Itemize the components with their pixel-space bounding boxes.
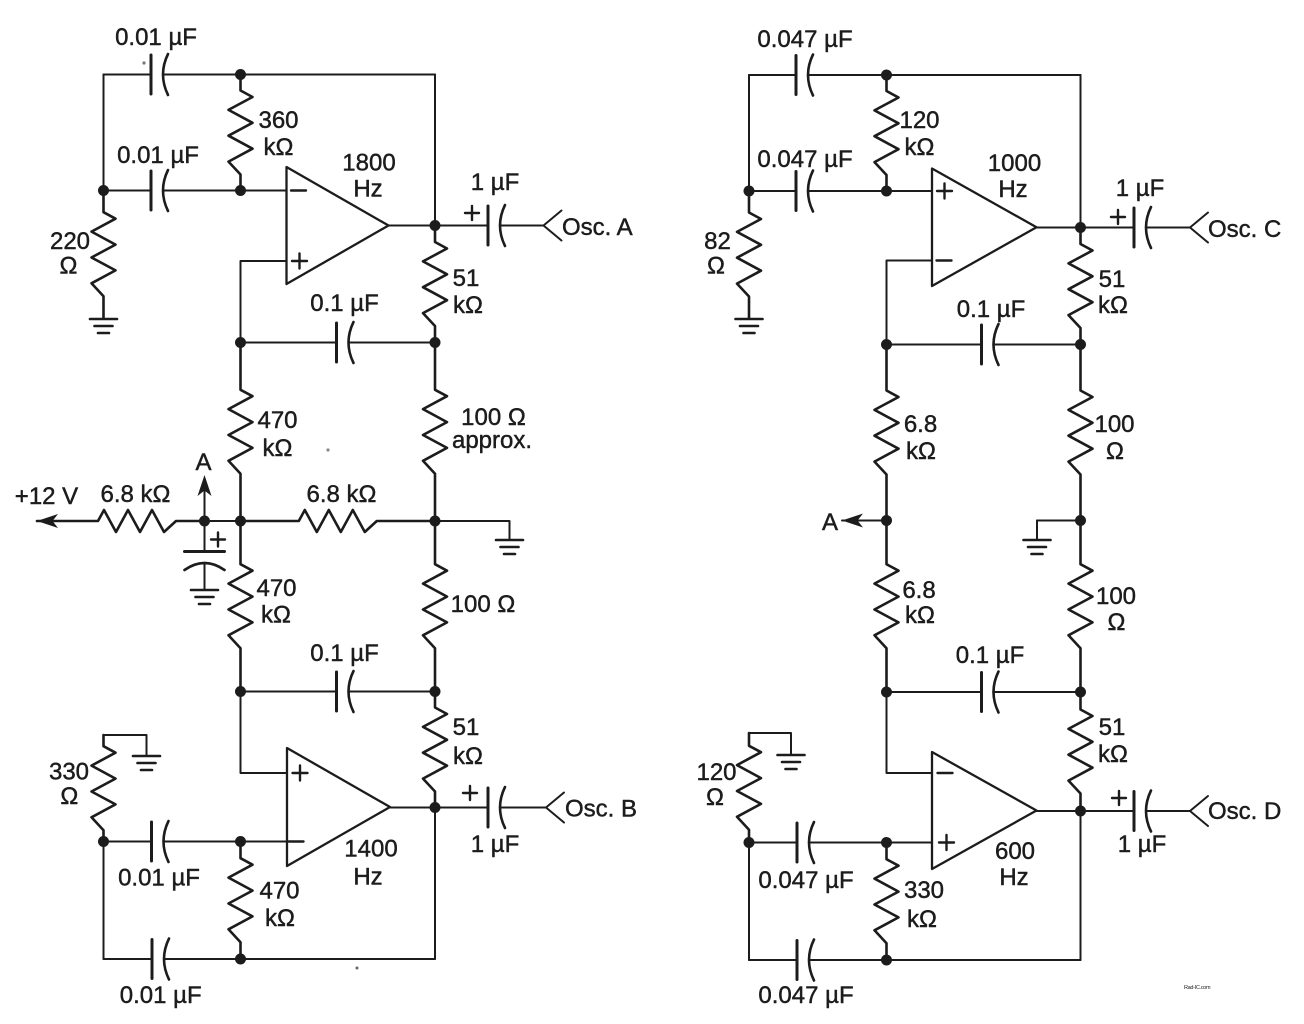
capacitor C 1 uF (Osc. D coupling) (1112, 791, 1166, 859)
svg-text:Ω: Ω (1108, 609, 1126, 636)
resistor R 330 Ohm (49, 735, 116, 842)
wire feedback vertical (top row to output) (434, 75, 436, 226)
capacitor C 0.1 uF (row 2 right) (956, 642, 1025, 713)
wire inverting input row, left segment (104, 190, 152, 192)
capacitor C 0.047 uF (top feedback) (757, 26, 852, 96)
wire feedback vertical right circuit (1080, 75, 1082, 228)
wire 0.1 uF row 2 left segment (241, 691, 337, 693)
wire to Osc. C connector (1146, 227, 1190, 229)
svg-text:A: A (822, 509, 838, 536)
svg-text:6.8 kΩ: 6.8 kΩ (101, 481, 171, 508)
wire top feedback row, left segment (104, 74, 152, 76)
wire to Osc. D connector (1146, 810, 1190, 812)
wire U4 non-inverting row left segment (749, 842, 797, 844)
svg-text:330: 330 (904, 877, 944, 904)
svg-text:0.01 µF: 0.01 µF (120, 982, 202, 1009)
svg-text:470: 470 (259, 878, 299, 905)
wire top feedback row C, right segment (808, 74, 1081, 76)
svg-text:0.1 µF: 0.1 µF (310, 640, 379, 667)
capacitor C 0.047 uF (U4 input) (758, 822, 853, 894)
op-amp U1 1800 Hz (287, 150, 396, 285)
svg-text:kΩ: kΩ (453, 743, 483, 770)
wire U4 non-inverting row right segment (809, 842, 932, 844)
svg-text:470: 470 (257, 407, 297, 434)
node junction row2 left (235, 686, 246, 697)
wire U2 inverting row left segment (104, 841, 152, 843)
op-amp U3 1000 Hz (932, 150, 1041, 286)
capacitor C 0.1 uF (row 1) (310, 290, 379, 363)
resistor R 82 Ohm (704, 191, 761, 318)
svg-text:0.01 µF: 0.01 µF (118, 865, 200, 892)
resistor R 6.8 kOhm (upper right) (875, 345, 938, 521)
svg-text:1400: 1400 (344, 836, 397, 863)
svg-text:600: 600 (995, 838, 1035, 865)
wire right vertical output to bottom (434, 808, 436, 960)
svg-text:51: 51 (1099, 714, 1126, 741)
wire 0.1 uF row 2 right-circuit left segment (887, 691, 982, 693)
ground (below 220 Ohm) (90, 319, 117, 333)
svg-text:Ω: Ω (60, 253, 78, 280)
svg-text:100: 100 (1094, 411, 1134, 438)
ground (120 Ohm) (778, 755, 805, 769)
wire top feedback row, right segment (163, 74, 435, 76)
resistor R 330 kOhm (875, 843, 945, 961)
wire 0.1 uF row 2 right-circuit right segment (994, 691, 1081, 693)
svg-text:0.047 µF: 0.047 µF (758, 982, 853, 1009)
op-amp U4 600 Hz (932, 752, 1037, 891)
wire top feedback row C, left segment (749, 74, 796, 76)
ground (below bypass cap) (191, 590, 218, 604)
node junction row1 right-circuit left (881, 339, 892, 350)
svg-text:Ω: Ω (706, 784, 724, 811)
connector Osc. C (1190, 213, 1281, 244)
svg-text:6.8: 6.8 (904, 411, 937, 438)
node junction U4 input row left (744, 837, 755, 848)
node junction input row C left (744, 186, 755, 197)
node junction mid row right-circuit right (1075, 515, 1086, 526)
node junction top (360k top) (235, 69, 246, 80)
node junction row2 right (430, 686, 441, 697)
capacitor C 1 uF (Osc. A coupling) (465, 169, 519, 246)
svg-text:0.1 µF: 0.1 µF (956, 642, 1025, 669)
capacitor C 0.1 uF (row 2) (310, 640, 379, 712)
resistor R 51 kOhm (upper left) (423, 226, 483, 343)
scan speck (142, 61, 145, 64)
capacitor C 0.01 uF (top feedback) (115, 24, 197, 95)
wire right-circuit right vertical output to bottom (1080, 811, 1082, 960)
svg-text:+12 V: +12 V (15, 483, 78, 510)
node junction input row left (98, 185, 109, 196)
svg-text:Ω: Ω (60, 783, 78, 810)
capacitor C 0.01 uF (bottom) (120, 939, 202, 1010)
svg-text:kΩ: kΩ (453, 292, 483, 319)
resistor R 120 kOhm (875, 75, 940, 191)
wire inverting input row, right segment to op-amp (163, 190, 287, 192)
svg-text:kΩ: kΩ (905, 602, 935, 629)
wire 0.1 uF row 1 left segment (241, 342, 337, 344)
node junction U1 output (430, 220, 441, 231)
ground (below 82 Ohm) (736, 319, 763, 333)
wire bottom row right segment (164, 958, 435, 960)
svg-text:1 µF: 1 µF (471, 169, 520, 196)
svg-text:330: 330 (49, 759, 89, 786)
op-amp U2 1400 Hz (287, 748, 398, 891)
svg-text:1 µF: 1 µF (1118, 831, 1167, 858)
node junction row2 right-circuit right (1075, 687, 1086, 698)
svg-text:82: 82 (704, 228, 731, 255)
svg-text:Osc. A: Osc. A (562, 214, 633, 241)
power +12 V feed arrow (15, 483, 98, 528)
capacitor C 0.01 uF (input) (117, 142, 199, 211)
capacitor C 0.047 uF (bottom right) (758, 940, 853, 1010)
wire U4 output row (1037, 810, 1135, 812)
scan speck (356, 967, 359, 970)
wire non-inverting input of U2 (241, 692, 288, 774)
wire left vertical right circuit (top) (748, 75, 750, 191)
node junction U2 input row left (98, 836, 109, 847)
resistor R 100 Ohm (lower) (423, 521, 515, 692)
svg-text:0.047 µF: 0.047 µF (757, 146, 852, 173)
connector Osc. A (544, 211, 633, 242)
resistor R 6.8 kOhm (left) (37, 481, 205, 532)
wire 0.1 uF row 1 right-circuit left segment (887, 344, 982, 346)
svg-text:0.01 µF: 0.01 µF (115, 24, 197, 51)
capacitor C electrolytic bypass (node A) (185, 521, 226, 589)
wire 0.1 uF row 1 right segment (349, 342, 436, 344)
ground (330 Ohm) (133, 756, 160, 770)
node junction input row (360k bottom) (235, 185, 246, 196)
svg-text:Osc. C: Osc. C (1208, 216, 1281, 243)
node junction U4 input row (330k top) (881, 837, 892, 848)
svg-text:6.8: 6.8 (902, 577, 935, 604)
svg-text:100: 100 (1096, 583, 1136, 610)
capacitor C 1 uF (Osc. C coupling) (1111, 175, 1164, 248)
svg-text:Osc. D: Osc. D (1208, 798, 1281, 825)
node junction U2 output (430, 802, 441, 813)
node junction bottom row right circuit (881, 955, 892, 966)
svg-text:Hz: Hz (998, 176, 1027, 203)
node junction row1 right-circuit right (1075, 339, 1086, 350)
resistor R 51 kOhm (lower left) (423, 692, 483, 808)
wire left vertical to bottom row (103, 842, 105, 960)
svg-text:120: 120 (899, 107, 939, 134)
wire 330 Ohm top to ground (104, 735, 147, 755)
svg-text:120: 120 (696, 759, 736, 786)
ground (mid row right circuit) (1024, 540, 1051, 554)
svg-text:A: A (195, 449, 211, 476)
svg-text:kΩ: kΩ (1098, 741, 1128, 768)
node junction mid row (470k column) (235, 516, 246, 527)
wire inverting input of U3 (887, 261, 933, 345)
svg-text:Hz: Hz (999, 864, 1028, 891)
svg-text:1 µF: 1 µF (1116, 175, 1165, 202)
resistor R 360 kOhm (229, 75, 299, 191)
svg-text:Hz: Hz (353, 864, 382, 891)
svg-text:kΩ: kΩ (264, 134, 294, 161)
svg-text:0.01 µF: 0.01 µF (117, 142, 199, 169)
svg-text:6.8 kΩ: 6.8 kΩ (307, 481, 377, 508)
wire bottom row right-circuit right segment (809, 959, 1081, 961)
wire bottom row right-circuit left segment (749, 959, 797, 961)
node junction U3 output (1075, 222, 1086, 233)
wire to Osc. A connector (500, 225, 544, 227)
scan speck (326, 448, 329, 451)
wire non-inverting input of U1 (241, 261, 287, 343)
wire right-circuit left vertical to bottom row (748, 843, 750, 961)
svg-text:220: 220 (50, 228, 90, 255)
svg-text:0.047 µF: 0.047 µF (758, 867, 853, 894)
wire left vertical (top cap to input row) (103, 75, 105, 191)
svg-text:0.1 µF: 0.1 µF (310, 290, 379, 317)
svg-text:Hz: Hz (353, 176, 382, 203)
wire input row C, left segment (749, 190, 796, 192)
svg-text:Ω: Ω (1106, 438, 1124, 465)
capacitor C 0.047 uF (input C) (757, 146, 852, 212)
wire mid row short segment (205, 520, 241, 522)
node junction bottom row (235, 954, 246, 965)
wire mid row to ground (435, 521, 510, 539)
svg-text:1000: 1000 (988, 150, 1041, 177)
node junction row1 left (235, 337, 246, 348)
connector Osc. D (1190, 796, 1281, 826)
resistor R 220 Ohm (50, 191, 116, 319)
resistor R 51 kOhm (upper right) (1069, 228, 1128, 345)
wire bottom row left segment (104, 958, 153, 960)
capacitor C 1 uF (Osc. B coupling) (463, 786, 519, 858)
svg-text:Osc. B: Osc. B (565, 796, 637, 823)
capacitor C 0.1 uF (row 1 right) (957, 296, 1026, 365)
node junction top C (120k top) (881, 70, 892, 81)
svg-text:kΩ: kΩ (905, 134, 935, 161)
svg-text:kΩ: kΩ (265, 905, 295, 932)
resistor R 6.8 kOhm (middle) (241, 481, 436, 532)
resistor R 100 Ohm (upper right) (1069, 345, 1135, 521)
svg-text:kΩ: kΩ (907, 906, 937, 933)
svg-text:51: 51 (453, 714, 480, 741)
svg-text:Rad-IC.com: Rad-IC.com (1184, 985, 1211, 991)
wire inverting input of U4 (887, 692, 933, 773)
svg-text:51: 51 (453, 265, 480, 292)
svg-text:kΩ: kΩ (263, 435, 293, 462)
svg-text:1800: 1800 (342, 150, 395, 177)
wire to Osc. B connector (500, 807, 546, 809)
resistor R 470 kOhm (lower) (229, 521, 297, 692)
resistor R 100 Ohm (lower right) (1069, 521, 1137, 693)
resistor R 470 kOhm (U2 feedback) (229, 842, 300, 960)
svg-text:360: 360 (258, 107, 298, 134)
wire mid row right-circuit to ground (1037, 520, 1081, 522)
node junction row1 right (430, 337, 441, 348)
svg-text:0.1 µF: 0.1 µF (957, 296, 1026, 323)
svg-text:1 µF: 1 µF (471, 831, 520, 858)
wire input row C, right segment to op-amp (808, 190, 932, 192)
svg-text:0.047 µF: 0.047 µF (757, 26, 852, 53)
svg-text:kΩ: kΩ (1098, 292, 1128, 319)
wire U2 inverting row right segment (164, 841, 288, 843)
ground (mid row right) (496, 540, 523, 554)
svg-text:100 Ω: 100 Ω (451, 591, 516, 618)
resistor R 470 kOhm (upper) (229, 343, 298, 522)
wire 0.1 uF row 1 right-circuit right segment (994, 344, 1081, 346)
resistor R 100 Ohm approx (423, 343, 532, 522)
wire U1 output row (389, 225, 489, 227)
connector Osc. B (546, 793, 637, 823)
svg-text:kΩ: kΩ (906, 438, 936, 465)
resistor R 6.8 kOhm (lower right) (875, 521, 936, 693)
node junction row2 right-circuit left (881, 687, 892, 698)
node A arrow (right circuit) (822, 509, 887, 536)
svg-text:470: 470 (256, 575, 296, 602)
capacitor C 0.01 uF (U2 input) (118, 821, 200, 892)
resistor R 51 kOhm (lower right) (1069, 692, 1128, 811)
wire U2 output row (390, 807, 488, 809)
node junction U4 output (1075, 806, 1086, 817)
resistor R 120 Ohm (696, 733, 761, 843)
svg-text:Ω: Ω (707, 253, 725, 280)
node A arrow (left circuit) (195, 449, 211, 521)
wire 120 Ohm top to ground (749, 733, 791, 754)
svg-text:51: 51 (1099, 266, 1126, 293)
node junction mid row right-circuit left (881, 515, 892, 526)
node junction mid row (cap tap) (199, 516, 210, 527)
wire U3 output row (1037, 227, 1135, 229)
svg-text:kΩ: kΩ (261, 602, 291, 629)
wire 0.1 uF row 2 right segment (349, 691, 436, 693)
node junction U2 input row (470k top) (235, 836, 246, 847)
node junction mid row right (430, 516, 441, 527)
node junction input row C (120k bottom) (881, 186, 892, 197)
svg-text:approx.: approx. (452, 427, 532, 454)
